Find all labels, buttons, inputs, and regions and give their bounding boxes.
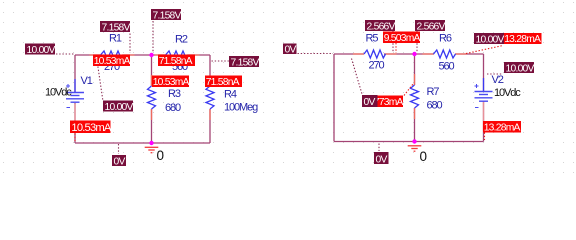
svg-text:10.53mA: 10.53mA bbox=[71, 122, 112, 134]
svg-text:9.503mA: 9.503mA bbox=[384, 33, 421, 44]
svg-text:270: 270 bbox=[369, 60, 385, 72]
svg-text:R1: R1 bbox=[109, 33, 122, 45]
svg-text:R5: R5 bbox=[366, 32, 379, 44]
svg-text:10.53mA: 10.53mA bbox=[153, 77, 190, 88]
svg-text:10.00V: 10.00V bbox=[105, 102, 134, 113]
svg-text:13.28mA: 13.28mA bbox=[484, 123, 521, 134]
svg-text:R7: R7 bbox=[427, 86, 440, 98]
svg-text:7.158V: 7.158V bbox=[231, 57, 260, 68]
svg-text:7.158V: 7.158V bbox=[102, 22, 131, 33]
svg-text:10.53mA: 10.53mA bbox=[94, 56, 131, 67]
svg-text:R3: R3 bbox=[168, 88, 181, 100]
svg-text:10.00V: 10.00V bbox=[476, 34, 505, 45]
svg-text:10.00V: 10.00V bbox=[506, 63, 535, 74]
svg-text:0V: 0V bbox=[285, 44, 297, 55]
svg-text:R4: R4 bbox=[224, 89, 237, 101]
svg-text:71.58nA: 71.58nA bbox=[206, 77, 240, 88]
svg-text:R2: R2 bbox=[175, 34, 188, 46]
svg-text:10.00V: 10.00V bbox=[27, 45, 56, 56]
svg-text:0V: 0V bbox=[376, 154, 388, 165]
svg-text:0V: 0V bbox=[114, 156, 126, 167]
svg-text:10Vdc: 10Vdc bbox=[45, 87, 72, 99]
svg-text:2.566V: 2.566V bbox=[367, 21, 396, 32]
svg-text:680: 680 bbox=[427, 100, 443, 112]
svg-text:71.58nA: 71.58nA bbox=[159, 56, 193, 67]
svg-text:13.28mA: 13.28mA bbox=[504, 34, 541, 45]
svg-text:V2: V2 bbox=[492, 74, 504, 86]
svg-text:0V: 0V bbox=[364, 97, 376, 108]
svg-text:0: 0 bbox=[420, 149, 428, 164]
svg-text:R6: R6 bbox=[439, 32, 452, 44]
svg-text:560: 560 bbox=[439, 61, 455, 73]
svg-text:0: 0 bbox=[157, 148, 165, 163]
svg-text:V1: V1 bbox=[81, 75, 93, 87]
svg-text:100Meg: 100Meg bbox=[224, 102, 258, 114]
svg-text:7.158V: 7.158V bbox=[153, 10, 182, 21]
svg-text:10Vdc: 10Vdc bbox=[494, 87, 521, 99]
svg-text:2.566V: 2.566V bbox=[417, 21, 446, 32]
svg-text:680: 680 bbox=[165, 102, 181, 114]
